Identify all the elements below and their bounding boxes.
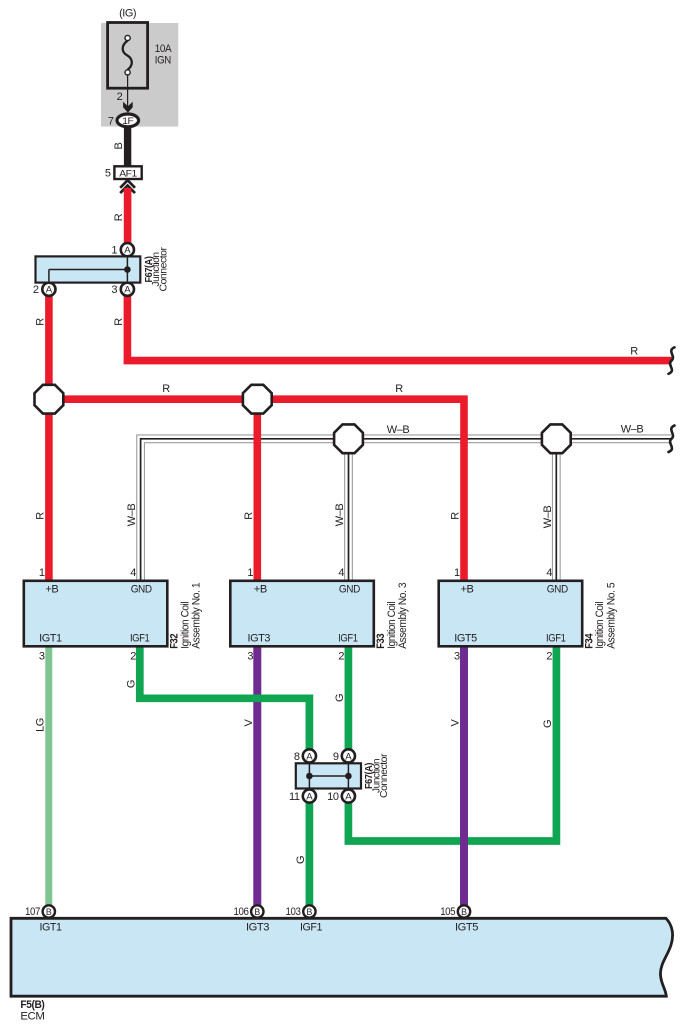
connector 1F [117,114,139,127]
junction octagon (W-B net, col coil5) [542,424,571,453]
svg-text:IGF1: IGF1 [338,632,358,644]
svg-text:IGF1: IGF1 [546,632,566,644]
junction connector F67(A) lower box [296,763,361,788]
pin 1 (A) of junction connector F67(A) [121,243,134,256]
svg-text:R: R [630,346,638,358]
svg-text:2: 2 [33,284,39,296]
svg-text:4: 4 [338,567,344,579]
svg-text:ECM: ECM [20,1011,44,1023]
svg-text:IGT3: IGT3 [246,922,269,934]
svg-text:10A: 10A [155,43,172,55]
svg-text:A: A [124,245,131,256]
svg-text:1: 1 [39,567,45,579]
svg-text:1: 1 [247,567,253,579]
pin 11 (A) [303,790,316,803]
svg-text:(IG): (IG) [119,8,136,20]
ECM pin 105 (B) [458,905,470,917]
svg-text:Ignition Coil: Ignition Coil [386,602,398,649]
wire R: octagon2 down to coil3 +B [253,399,261,581]
wire R: junction pin 3 down, right to break [127,296,671,361]
svg-text:IGF1: IGF1 [130,632,150,644]
svg-text:R: R [113,213,125,221]
svg-text:R: R [395,383,403,395]
svg-text:V: V [243,718,255,726]
svg-text:R: R [113,318,125,326]
svg-text:GND: GND [131,583,152,595]
svg-text:B: B [461,907,467,917]
svg-text:R: R [243,512,255,520]
svg-text:R: R [450,512,462,520]
svg-text:3: 3 [454,651,460,663]
svg-text:W–B: W–B [542,506,554,529]
svg-text:IGF1: IGF1 [300,922,322,934]
svg-text:+B: +B [45,583,58,595]
svg-text:G: G [125,680,137,688]
wire G: coil1 IGF1 over to junction pin 8 [140,646,310,753]
svg-text:3: 3 [111,284,117,296]
svg-text:R: R [34,318,46,326]
junction octagon (R net, col coil1) [35,385,64,414]
svg-text:GND: GND [547,583,568,595]
svg-text:A: A [345,792,352,803]
svg-text:B: B [306,907,312,917]
svg-text:11: 11 [289,791,300,803]
svg-text:1: 1 [111,244,117,256]
svg-text:3: 3 [39,651,45,663]
svg-text:B: B [254,907,260,917]
svg-text:F5(B): F5(B) [20,999,45,1011]
wire W-B vertical to coil5 GND [552,439,561,582]
svg-text:10: 10 [327,791,339,803]
junction connector lower internal bus [308,763,310,788]
junction octagon (R net, col coil3) [243,385,272,414]
svg-text:R: R [34,512,46,520]
svg-text:LG: LG [34,718,46,732]
svg-text:G: G [295,856,307,864]
wire W-B: coil1 GND up and right to break (net W-B) [141,439,671,582]
svg-text:1F: 1F [122,116,134,127]
svg-text:Ignition Coil: Ignition Coil [179,602,191,649]
shield chevrons below AF1 [120,180,135,188]
svg-text:B: B [46,907,52,917]
junction connector F67(A) box [36,256,141,282]
wire W-B vertical to coil3 GND [344,439,353,582]
svg-text:GND: GND [339,583,360,595]
svg-text:4: 4 [130,567,136,579]
svg-text:B: B [113,142,125,149]
svg-text:+B: +B [254,583,267,595]
svg-text:1: 1 [454,567,460,579]
svg-text:IGT5: IGT5 [454,632,477,644]
svg-text:2: 2 [117,91,123,103]
wire V: coil5 IGT5 to ECM 105 [460,646,468,906]
svg-text:A: A [124,285,131,296]
svg-text:W–B: W–B [621,424,644,436]
fuse 10A IGN [108,23,148,89]
svg-text:Connector: Connector [158,246,169,291]
ECM pin 103 (B) [303,905,315,917]
pin 10 (A) [342,790,355,803]
svg-text:A: A [306,751,313,762]
svg-text:W–B: W–B [334,504,346,527]
wire R: AF1 chevrons down to junction pin 1 [124,188,132,244]
svg-text:+B: +B [461,583,474,595]
svg-text:W–B: W–B [387,424,410,436]
svg-text:2: 2 [130,651,136,663]
wire G: junction pin 11 down to ECM 103 [306,800,314,906]
connector AF1 [114,166,141,179]
fuse block shading (IG) [101,23,178,127]
ECM F5(B) box [11,918,673,996]
wire LG: coil1 IGT1 to ECM 107 [45,646,52,906]
svg-text:7: 7 [108,115,114,127]
junction octagon (W-B net, col coil3) [334,424,363,453]
svg-text:4: 4 [546,567,552,579]
svg-text:IGT1: IGT1 [39,632,62,644]
wire R: horizontal row octagon1-octagon2 then down to coil5 +B [49,399,464,581]
svg-text:A: A [46,285,53,296]
svg-text:AF1: AF1 [119,168,137,179]
pin 8 (A) [303,749,316,762]
break symbol R right end [669,347,675,374]
svg-text:2: 2 [546,651,552,663]
svg-text:8: 8 [294,751,300,763]
svg-text:R: R [162,383,170,395]
arrow into connector 1F [123,102,133,113]
ECM pin 106 (B) [251,905,263,917]
svg-text:A: A [345,751,352,762]
svg-text:IGT5: IGT5 [455,922,478,934]
svg-text:105: 105 [440,906,455,918]
svg-text:3: 3 [247,651,253,663]
ECM pin 107 (B) [43,905,55,917]
wire B (black) 1F to AF1 [124,127,131,167]
ignition coil F32 box [24,581,168,647]
svg-text:G: G [334,694,346,702]
ignition coil F33 box [230,581,373,647]
svg-text:Assembly No. 3: Assembly No. 3 [397,582,409,648]
wire R: junction pin 2 down through junction dot to coil1 +B [45,296,53,582]
svg-text:IGT3: IGT3 [248,632,271,644]
junction connector internal bus [126,256,128,282]
pin 9 (A) [342,749,355,762]
svg-text:IGN: IGN [155,55,171,67]
svg-text:107: 107 [25,906,40,918]
svg-text:V: V [450,718,462,726]
svg-text:IGT1: IGT1 [40,922,62,934]
svg-text:9: 9 [333,751,339,763]
svg-text:5: 5 [105,168,111,180]
wire G: coil5 IGF1 down, left, up into junction pin 10 [348,646,556,842]
svg-text:Assembly No. 5: Assembly No. 5 [605,582,617,648]
wire G: coil3 IGF1 down to junction pin 9 [345,646,353,753]
pin 2 (A) of junction connector F67(A) [42,283,55,296]
break symbol W-B right end [669,426,675,453]
ignition coil F34 box [439,581,583,647]
pin 3 (A) of junction connector F67(A) [121,283,134,296]
svg-text:103: 103 [286,906,301,918]
svg-text:2: 2 [338,651,344,663]
svg-text:A: A [306,792,313,803]
svg-text:Assembly No. 1: Assembly No. 1 [191,582,203,648]
wire V: coil3 IGT3 to ECM 106 [253,646,261,906]
svg-text:Connector: Connector [379,753,390,798]
svg-text:Ignition Coil: Ignition Coil [594,602,606,649]
svg-text:W–B: W–B [126,504,138,527]
wire fuse to connector 1F [127,75,129,107]
svg-text:106: 106 [234,906,249,918]
svg-text:G: G [542,720,554,728]
